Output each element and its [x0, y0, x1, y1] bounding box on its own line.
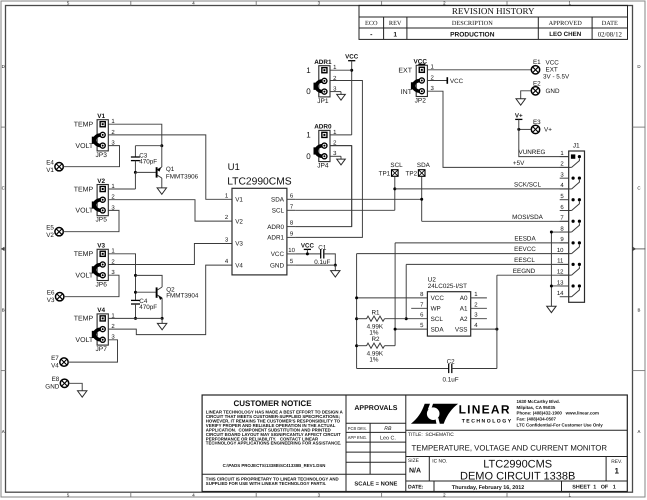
svg-text:JP6: JP6 [96, 281, 108, 288]
svg-text:TEMP: TEMP [74, 251, 94, 258]
svg-text:J1: J1 [573, 143, 580, 150]
svg-text:E6: E6 [47, 290, 55, 297]
svg-text:V3: V3 [47, 297, 55, 304]
svg-text:VOLT: VOLT [75, 273, 93, 280]
svg-text:470pF: 470pF [139, 304, 157, 311]
svg-text:0.1uF: 0.1uF [443, 376, 459, 383]
svg-text:SCALE = NONE: SCALE = NONE [354, 481, 397, 488]
svg-text:LEO CHEN: LEO CHEN [549, 31, 582, 38]
svg-text:JP2: JP2 [415, 97, 427, 104]
svg-text:ECO: ECO [365, 20, 378, 27]
svg-text:11: 11 [557, 258, 564, 265]
svg-text:B: B [638, 307, 641, 312]
svg-text:SCK/SCL: SCK/SCL [514, 182, 541, 189]
svg-text:ADR0: ADR0 [314, 124, 332, 131]
svg-text:VUNREG: VUNREG [519, 149, 546, 156]
svg-text:EESCL: EESCL [514, 257, 535, 264]
svg-text:SUPPLIED FOR USE WITH LINEAR T: SUPPLIED FOR USE WITH LINEAR TECHNOLOGY … [206, 481, 327, 486]
svg-text:V4: V4 [51, 362, 59, 369]
svg-text:V1: V1 [46, 167, 54, 174]
svg-text:EXT: EXT [398, 67, 412, 74]
svg-text:02/08/12: 02/08/12 [598, 31, 623, 38]
svg-text:VOLT: VOLT [75, 143, 93, 150]
svg-text:1: 1 [306, 66, 311, 75]
svg-text:0: 0 [306, 87, 311, 96]
svg-text:A0: A0 [460, 295, 468, 302]
svg-text:0.1uF: 0.1uF [314, 259, 330, 266]
svg-text:JP5: JP5 [96, 217, 108, 224]
svg-text:SDA: SDA [271, 197, 285, 204]
svg-text:SCL: SCL [390, 162, 403, 169]
svg-text:N/A: N/A [409, 466, 421, 474]
svg-text:V4: V4 [97, 307, 105, 314]
svg-text:14: 14 [557, 290, 564, 297]
svg-text:VOLT: VOLT [75, 208, 93, 215]
svg-text:E5: E5 [46, 225, 54, 232]
svg-text:A: A [638, 429, 641, 434]
svg-text:LTC2990CMS: LTC2990CMS [227, 177, 292, 188]
svg-text:JP7: JP7 [96, 346, 108, 353]
svg-text:Milpitas, CA 95035: Milpitas, CA 95035 [517, 405, 556, 410]
svg-text:VCC: VCC [271, 251, 285, 258]
svg-text:TEMP: TEMP [74, 122, 94, 129]
svg-text:GND: GND [270, 262, 284, 269]
svg-text:Leo C.: Leo C. [380, 435, 396, 441]
svg-text:Thursday, February 16, 2012: Thursday, February 16, 2012 [452, 485, 524, 491]
svg-text:GND: GND [546, 88, 560, 95]
svg-text:JP4: JP4 [317, 163, 329, 170]
svg-text:V1: V1 [97, 113, 105, 120]
svg-text:E7: E7 [51, 355, 59, 362]
svg-text:B: B [2, 307, 5, 312]
svg-text:PRODUCTION: PRODUCTION [450, 31, 495, 38]
svg-text:APPROVED: APPROVED [549, 20, 583, 27]
svg-text:R1: R1 [371, 310, 380, 317]
svg-text:V+: V+ [544, 127, 552, 134]
svg-text:1: 1 [306, 131, 311, 140]
svg-text:1%: 1% [369, 356, 379, 363]
svg-text:APPROVALS: APPROVALS [354, 405, 397, 412]
svg-text:TEMP: TEMP [74, 316, 94, 323]
svg-text:C: C [2, 186, 5, 191]
svg-text:LTC2990CMS: LTC2990CMS [483, 459, 552, 471]
svg-text:ADR1: ADR1 [267, 235, 284, 242]
svg-text:MOSI/SDA: MOSI/SDA [512, 214, 544, 221]
svg-text:E1: E1 [533, 59, 541, 66]
svg-text:FMMT3906: FMMT3906 [166, 173, 199, 180]
svg-text:TEMPERATURE, VOLTAGE AND CURRE: TEMPERATURE, VOLTAGE AND CURRENT MONITOR [412, 443, 608, 452]
svg-text:V3: V3 [235, 241, 243, 248]
svg-text:12: 12 [557, 268, 564, 275]
svg-text:SHEET 1 OF 1: SHEET 1 OF 1 [572, 485, 615, 491]
svg-text:TP1: TP1 [379, 170, 391, 177]
svg-text:470pF: 470pF [139, 158, 157, 165]
svg-text:A1: A1 [460, 306, 468, 313]
svg-text:GND: GND [45, 384, 59, 391]
svg-text:VCC: VCC [450, 78, 464, 85]
svg-text:VCC: VCC [345, 54, 359, 61]
svg-text:Fax: (408)434-0507: Fax: (408)434-0507 [517, 417, 557, 422]
svg-text:DATE:: DATE: [408, 485, 424, 491]
svg-text:24LC025-I/ST: 24LC025-I/ST [428, 283, 467, 290]
svg-text:SDA: SDA [417, 162, 431, 169]
svg-text:ADR0: ADR0 [267, 224, 284, 231]
svg-text:EESDA: EESDA [514, 235, 536, 242]
svg-text:VCC: VCC [301, 242, 315, 249]
svg-text:V+: V+ [515, 112, 523, 119]
svg-text:JP3: JP3 [96, 152, 108, 159]
svg-text:V2: V2 [46, 232, 54, 239]
svg-text:1: 1 [614, 467, 619, 476]
svg-text:V2: V2 [235, 218, 243, 225]
svg-text:1630 McCarthy Blvd.: 1630 McCarthy Blvd. [517, 399, 560, 404]
svg-text:TECHNOLOGY: TECHNOLOGY [462, 419, 513, 425]
svg-text:TEMP: TEMP [74, 186, 94, 193]
svg-text:V1: V1 [235, 197, 243, 204]
svg-text:TECHNOLOGY APPLICATIONS ENGINE: TECHNOLOGY APPLICATIONS ENGINEERING FOR … [206, 441, 342, 446]
svg-text:EXT: EXT [546, 66, 558, 73]
svg-text:SCL: SCL [272, 208, 285, 215]
svg-text:E2: E2 [533, 80, 541, 87]
svg-text:U1: U1 [228, 162, 240, 173]
svg-text:Phone: (408)432-1900 www.lin: Phone: (408)432-1900 www.linear.com [517, 411, 600, 416]
svg-text:SDA: SDA [431, 326, 445, 333]
svg-text:C1: C1 [318, 244, 327, 251]
svg-text:VOLT: VOLT [75, 337, 93, 344]
svg-text:RB: RB [384, 426, 392, 432]
svg-text:DATE: DATE [602, 20, 618, 27]
svg-text:EEVCC: EEVCC [514, 246, 536, 253]
svg-text:ADR1: ADR1 [314, 59, 332, 66]
svg-text:FMMT3904: FMMT3904 [166, 293, 199, 300]
svg-text:LINEAR: LINEAR [459, 403, 511, 417]
svg-text:DEMO CIRCUIT 1338B: DEMO CIRCUIT 1338B [460, 470, 575, 482]
svg-text:V4: V4 [235, 262, 243, 269]
svg-text:0: 0 [306, 152, 311, 161]
svg-text:SCL: SCL [431, 316, 444, 323]
svg-text:C:\PADS PROJECTS\1338B\SC41338: C:\PADS PROJECTS\1338B\SC41338B_REV1.DSN [223, 463, 326, 468]
svg-text:E3: E3 [533, 119, 541, 126]
svg-text:3V - 5.5V: 3V - 5.5V [543, 73, 570, 80]
svg-text:REVISION HISTORY: REVISION HISTORY [452, 6, 535, 16]
svg-text:REV.: REV. [611, 459, 622, 465]
svg-text:C2: C2 [447, 359, 456, 366]
svg-text:SIZE: SIZE [408, 458, 420, 464]
svg-text:VCC: VCC [431, 295, 445, 302]
svg-text:D: D [637, 64, 640, 69]
svg-text:JP1: JP1 [317, 98, 329, 105]
svg-text:TP2: TP2 [406, 170, 418, 177]
svg-text:IC NO.: IC NO. [432, 458, 447, 464]
svg-text:+5V: +5V [513, 160, 525, 167]
svg-text:R2: R2 [371, 336, 380, 343]
svg-text:REV: REV [389, 20, 402, 27]
svg-text:1: 1 [393, 31, 397, 38]
svg-text:V3: V3 [97, 243, 105, 250]
svg-text:10: 10 [288, 247, 295, 254]
svg-text:V2: V2 [97, 178, 105, 185]
svg-text:APP ENG.: APP ENG. [348, 435, 367, 440]
svg-text:TITLE: SCHEMATIC: TITLE: SCHEMATIC [408, 432, 454, 438]
svg-text:WP: WP [431, 306, 441, 313]
svg-text:C: C [637, 186, 640, 191]
svg-text:DESCRIPTION: DESCRIPTION [452, 20, 493, 27]
svg-text:Q1: Q1 [166, 166, 175, 173]
svg-text:LTC Confidential-For Customer: LTC Confidential-For Customer Use Only [517, 422, 604, 427]
svg-text:D: D [2, 64, 5, 69]
svg-text:PCB DES.: PCB DES. [348, 426, 367, 431]
svg-text:CUSTOMER NOTICE: CUSTOMER NOTICE [233, 399, 312, 408]
svg-text:VSS: VSS [455, 326, 468, 333]
svg-text:10: 10 [557, 247, 564, 254]
svg-text:E4: E4 [46, 160, 54, 167]
svg-text:EEGND: EEGND [513, 268, 536, 275]
svg-text:A2: A2 [460, 316, 468, 323]
svg-text:A: A [2, 429, 5, 434]
svg-text:E8: E8 [52, 376, 60, 383]
svg-text:13: 13 [557, 279, 564, 286]
svg-text:INT: INT [401, 89, 413, 96]
